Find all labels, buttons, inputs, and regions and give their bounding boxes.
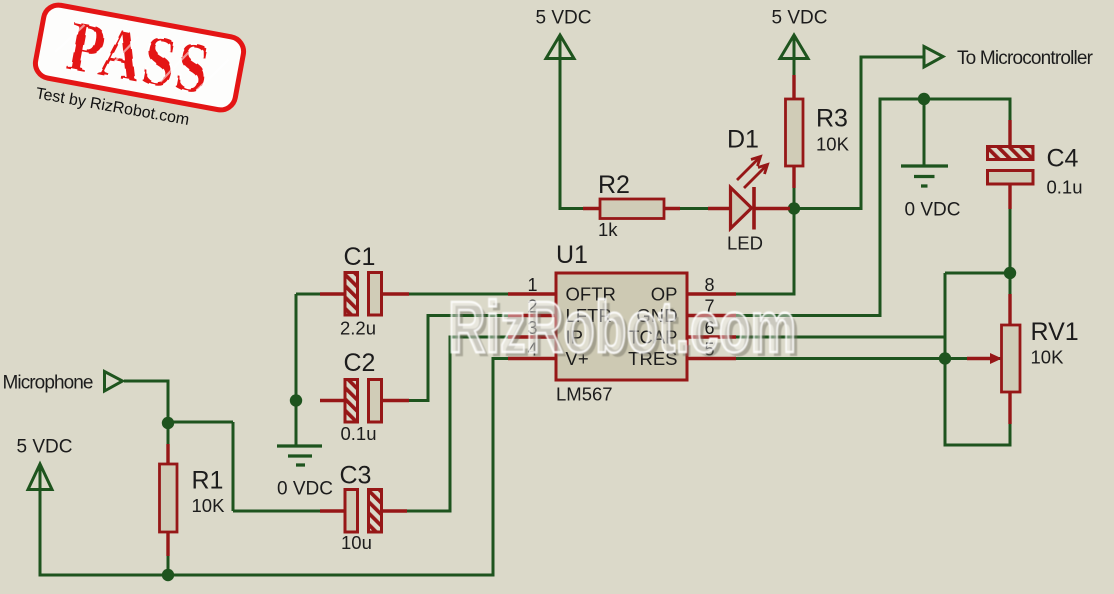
- svg-text:0 VDC: 0 VDC: [905, 200, 961, 221]
- svg-text:0.1u: 0.1u: [341, 423, 377, 444]
- svg-text:5 VDC: 5 VDC: [772, 8, 828, 29]
- svg-text:LED: LED: [727, 233, 763, 254]
- svg-text:10K: 10K: [816, 134, 850, 155]
- svg-text:10K: 10K: [192, 495, 226, 516]
- svg-text:R2: R2: [598, 171, 630, 199]
- svg-text:U1: U1: [556, 241, 588, 269]
- svg-text:C4: C4: [1047, 145, 1079, 173]
- svg-text:To Microcontroller: To Microcontroller: [957, 48, 1094, 69]
- svg-text:C2: C2: [344, 349, 376, 377]
- svg-text:1k: 1k: [598, 219, 618, 240]
- svg-text:10u: 10u: [341, 532, 372, 553]
- svg-text:2.2u: 2.2u: [340, 318, 376, 339]
- svg-text:5 VDC: 5 VDC: [536, 8, 592, 29]
- svg-text:LM567: LM567: [556, 384, 613, 405]
- svg-text:Microphone: Microphone: [3, 373, 94, 394]
- svg-text:RizRobot.com: RizRobot.com: [448, 287, 796, 368]
- svg-text:C3: C3: [340, 462, 372, 490]
- svg-text:R1: R1: [192, 467, 224, 495]
- svg-text:D1: D1: [727, 126, 759, 154]
- svg-text:0.1u: 0.1u: [1047, 177, 1083, 198]
- svg-text:C1: C1: [344, 243, 376, 271]
- svg-text:5 VDC: 5 VDC: [17, 437, 73, 458]
- svg-text:RV1: RV1: [1031, 318, 1079, 346]
- svg-text:R3: R3: [816, 105, 848, 133]
- svg-text:0 VDC: 0 VDC: [277, 479, 333, 500]
- svg-text:10K: 10K: [1031, 347, 1065, 368]
